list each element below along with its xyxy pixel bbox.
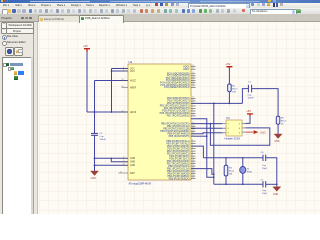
svg-text:100nF: 100nF	[100, 139, 107, 141]
wire header pin1 from U1	[191, 123, 223, 125]
svg-text:30: 30	[192, 97, 194, 99]
svg-text:10: 10	[192, 112, 194, 114]
U1 right pin names	[160, 66, 191, 181]
U1 right pin numbers	[192, 65, 194, 179]
wire R3 stubs	[225, 158, 227, 185]
svg-text:23: 23	[192, 72, 194, 74]
svg-text:GND: GND	[273, 193, 279, 196]
svg-text:21: 21	[122, 110, 124, 112]
project tree	[2, 57, 32, 215]
svg-text:15: 15	[192, 130, 194, 132]
wire VCC pin1	[112, 68, 129, 70]
wire header pin2 from U1	[191, 127, 223, 129]
svg-text:22: 22	[192, 68, 194, 70]
svg-text:ADC7: ADC7	[183, 68, 190, 71]
capacitor C6	[261, 152, 268, 170]
svg-text:AREF: AREF	[130, 86, 137, 89]
svg-text:+5V: +5V	[83, 44, 88, 48]
wire R2 bottom to GND	[277, 124, 279, 134]
svg-text:26: 26	[192, 79, 194, 81]
svg-text:+5V: +5V	[226, 62, 231, 66]
svg-text:16: 16	[192, 167, 194, 169]
capacitor C1	[248, 82, 255, 100]
resistor R1	[228, 84, 238, 94]
svg-text:GND: GND	[130, 165, 135, 167]
U1 left pin names	[130, 68, 137, 175]
svg-text:3: 3	[123, 157, 124, 159]
svg-text:9: 9	[192, 154, 193, 156]
power port +5V (left)	[83, 44, 90, 52]
svg-text:+5V: +5V	[246, 109, 251, 113]
power port +5V (above R1)	[226, 62, 233, 69]
radio Structure Editor	[2, 41, 7, 46]
svg-text:U1: U1	[129, 60, 133, 64]
menu bar	[0, 3, 320, 9]
projects panel	[0, 22, 38, 215]
document tab 1	[38, 15, 80, 22]
U1 right pin stubs	[191, 67, 196, 179]
capacitor C7	[261, 180, 268, 196]
svg-text:GND: GND	[274, 140, 280, 143]
svg-text:21: 21	[123, 164, 125, 166]
svg-text:GND: GND	[91, 177, 97, 180]
svg-text:12: 12	[192, 122, 194, 124]
svg-text:17: 17	[192, 169, 194, 171]
svg-text:16: 16	[192, 132, 194, 134]
svg-text:3: 3	[192, 139, 193, 141]
ground symbol GND (crystal)	[273, 187, 281, 196]
svg-text:32: 32	[192, 102, 194, 104]
wire GND pin3	[95, 164, 129, 166]
wire GND pin2 jog	[111, 158, 128, 162]
resistor R2	[276, 116, 286, 126]
svg-text:20: 20	[122, 86, 124, 88]
svg-text:18: 18	[122, 79, 124, 81]
svg-text:6: 6	[192, 147, 193, 149]
sheet background	[36, 21, 320, 214]
svg-text:1: 1	[192, 104, 193, 106]
svg-text:Header 3X2A: Header 3X2A	[225, 137, 241, 141]
svg-text:17: 17	[192, 135, 194, 137]
svg-text:PD7 (PCINT23/AIN1): PD7 (PCINT23/AIN1)	[167, 115, 190, 118]
svg-text:15: 15	[192, 164, 194, 166]
svg-text:Res2: Res2	[281, 121, 287, 123]
svg-text:PC6 (RESET/PCINT14): PC6 (RESET/PCINT14)	[164, 86, 190, 89]
wire crystal left vertical from RESET dot	[213, 103, 215, 184]
wire crystal bottom rail	[214, 183, 263, 185]
svg-text:100nF: 100nF	[248, 98, 255, 100]
svg-text:4: 4	[192, 142, 193, 144]
svg-text:22pF: 22pF	[262, 168, 268, 170]
project button row	[1, 28, 7, 35]
tree scrollbar strip	[31, 57, 33, 214]
svg-text:29: 29	[192, 86, 194, 88]
wire AVCC vertical down through C2	[94, 81, 96, 134]
power port arrow +5V2 (right of P1)	[246, 130, 267, 134]
svg-text:10K: 10K	[232, 92, 236, 94]
svg-text:28: 28	[192, 83, 194, 85]
wire C2 bottom to GND	[94, 135, 96, 171]
wire crystal bottom rail right	[266, 183, 277, 185]
tab row	[0, 14, 320, 22]
wire R1 bottom to RESET	[228, 92, 230, 104]
svg-text:19: 19	[192, 174, 194, 176]
svg-text:18: 18	[192, 172, 194, 174]
svg-text:20: 20	[192, 177, 194, 179]
svg-text:ADC6: ADC6	[130, 111, 137, 114]
wire pin y168.6 to crystal vertical	[191, 169, 214, 175]
svg-text:1M: 1M	[229, 174, 232, 176]
radio File View	[2, 35, 7, 40]
svg-text:VCC: VCC	[130, 71, 135, 73]
wire crystal top rail right + right vertical	[266, 158, 277, 187]
svg-text:11: 11	[120, 171, 122, 173]
wire RESET net horizontal	[191, 102, 242, 104]
workspace button row	[1, 22, 7, 29]
wire header +5V drop	[246, 114, 251, 123]
wire +5V rail left vertical	[86, 52, 88, 113]
window title bar	[0, 0, 320, 3]
svg-text:13: 13	[192, 159, 194, 161]
ground symbol GND (under R2)	[274, 134, 282, 143]
svg-text:7: 7	[192, 149, 193, 151]
ground symbol GND (left, under C2)	[91, 171, 99, 180]
U1 left pin numbers	[120, 67, 125, 174]
svg-text:5: 5	[192, 144, 193, 146]
svg-text:2: 2	[192, 107, 193, 109]
IC U1 ATmega328P microcontroller	[128, 60, 191, 186]
connector P1 header	[223, 116, 246, 141]
wire pin y146.1 feeding top rail	[191, 146, 203, 158]
svg-text:XTAL: XTAL	[247, 170, 253, 173]
svg-text:22pF: 22pF	[262, 193, 268, 195]
svg-text:Res2: Res2	[229, 171, 235, 173]
power port +5V (above P1)	[246, 109, 253, 116]
svg-text:10: 10	[192, 157, 194, 159]
svg-text:14: 14	[192, 127, 194, 129]
wire header pin3 from U1 with jog	[191, 132, 223, 135]
svg-text:5: 5	[123, 160, 124, 162]
toolbar	[0, 8, 320, 15]
svg-text:AVCC: AVCC	[130, 79, 137, 82]
svg-text:11: 11	[192, 114, 194, 116]
svg-text:8: 8	[192, 152, 193, 154]
wire vertical riser to VCC pins	[111, 69, 113, 113]
svg-text:25: 25	[192, 76, 194, 78]
wire pin y136.2 joining left rail	[191, 135, 207, 137]
svg-text:27: 27	[192, 81, 194, 83]
wire crystal top rail	[203, 157, 263, 159]
crystal Y1	[240, 167, 253, 174]
svg-text:PB5 (PCINT5/SCK): PB5 (PCINT5/SCK)	[169, 177, 190, 180]
document tab 2 (active)	[79, 15, 124, 23]
svg-text:ATmega328P-MUR: ATmega328P-MUR	[129, 182, 152, 186]
wire VCC pin2	[112, 70, 129, 72]
svg-text:Res2: Res2	[232, 89, 238, 91]
svg-text:P1: P1	[227, 116, 231, 120]
svg-text:+5V2: +5V2	[260, 131, 267, 134]
wire horizontal to U1 pin y112	[87, 111, 128, 113]
U1 left pin stubs	[118, 69, 128, 174]
svg-text:GND: GND	[130, 158, 135, 160]
two icon buttons	[5, 47, 14, 56]
svg-text:PB5 (SCK/PCINT5): PB5 (SCK/PCINT5)	[169, 135, 190, 138]
svg-text:6: 6	[123, 69, 124, 71]
wire R1 top to +5V	[228, 69, 230, 84]
svg-text:24: 24	[192, 74, 194, 76]
wire GND pin1	[95, 157, 129, 159]
svg-text:DAP: DAP	[130, 172, 135, 175]
resistor R3	[224, 165, 235, 176]
wire C1 right to R2 column	[252, 89, 279, 117]
wire AVCC horizontal	[95, 80, 129, 82]
svg-text:19: 19	[192, 65, 194, 67]
svg-text:9: 9	[192, 109, 193, 111]
svg-text:31: 31	[192, 99, 194, 101]
svg-text:GND: GND	[130, 162, 135, 164]
capacitor C2	[91, 133, 106, 141]
wire loop net: down, across, up to header pin4	[210, 124, 269, 146]
svg-text:14: 14	[192, 162, 194, 164]
svg-text:13: 13	[192, 125, 194, 127]
wire XTAL feed from pin y118.7 down	[191, 119, 214, 178]
wire Y1 stubs	[242, 158, 244, 185]
wire RESET riser to C1	[242, 89, 248, 104]
